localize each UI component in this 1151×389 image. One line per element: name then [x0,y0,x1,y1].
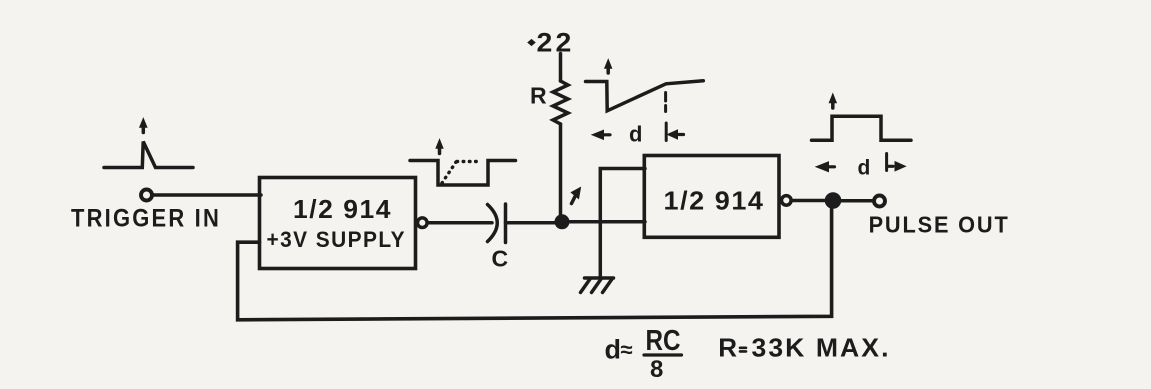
wire node to U2 [569,220,645,224]
wire resistor to node [559,124,563,218]
wire +22 to resistor [559,54,563,82]
trigger waveform arrow [140,119,147,133]
pulse up arrow [829,94,836,108]
svg-text:33K MAX.: 33K MAX. [752,333,891,363]
formula d = RC/8 [605,325,682,383]
+22 supply label [528,28,575,58]
svg-text:1/2 914: 1/2 914 [293,194,392,224]
ramp dashed tick [664,93,667,112]
U2 output bubble [782,196,792,206]
wire output node to terminal [841,199,873,203]
svg-text:R: R [718,333,737,363]
ground [581,278,614,293]
waveform arrow [436,140,443,154]
pulse d dimension [816,154,906,180]
one-shot block U2 [644,156,779,238]
formula R=33K MAX. [718,333,890,363]
svg-text:≈: ≈ [621,337,633,362]
dotted recovery line [442,162,481,184]
junction node [555,215,569,229]
svg-text:RC: RC [646,325,681,357]
wire node up-and-over to U2 top input [600,169,645,278]
node waveform (ramp recovery) [586,81,704,111]
pulse out terminal [874,196,885,207]
resistor R [553,81,568,124]
trigger input waveform [104,142,193,168]
waveform at C input (negative pulse) [410,161,516,186]
trigger in terminal [141,190,152,201]
output pulse waveform [812,116,912,140]
wire bubble to output node [792,199,828,203]
svg-text:PULSE OUT: PULSE OUT [869,212,1010,238]
svg-text:8: 8 [650,356,663,383]
one-shot block U1 [260,178,416,269]
svg-text:22: 22 [537,28,575,58]
node pointer arrow [571,188,580,204]
wire trigger terminal to U1 [153,193,262,197]
svg-text:R: R [530,82,547,108]
svg-text:d: d [629,122,642,147]
svg-text:C: C [492,246,509,272]
ramp d dimension [592,122,684,147]
svg-text:d: d [858,157,871,180]
U1 output bubble [418,218,428,228]
output node [825,193,841,209]
capacitor C [488,204,506,243]
wire U1 to capacitor [428,221,493,225]
svg-text:d: d [605,335,622,365]
wire C to node [506,221,560,225]
svg-text:1/2 914: 1/2 914 [664,185,765,215]
svg-text:+3V SUPPLY: +3V SUPPLY [267,227,407,252]
feedback wire [238,206,832,320]
ramp up arrow [605,60,612,74]
svg-text:TRIGGER IN: TRIGGER IN [71,205,221,233]
